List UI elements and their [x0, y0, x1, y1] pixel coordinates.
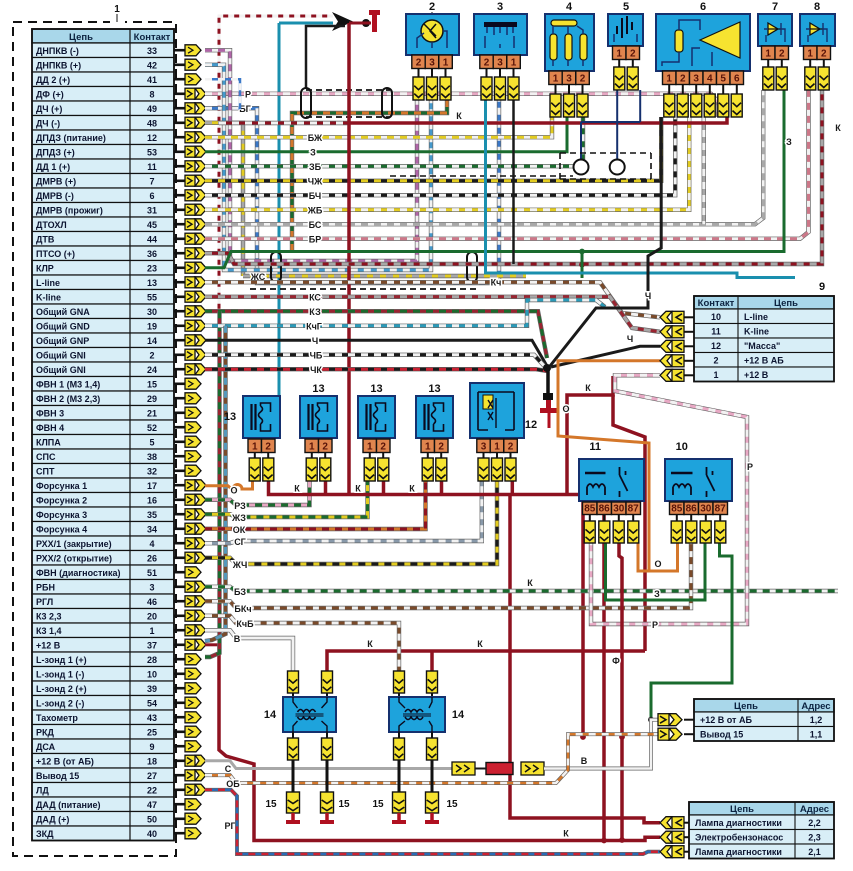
- svg-text:14: 14: [147, 336, 157, 346]
- svg-text:37: 37: [147, 641, 157, 651]
- wire К main +12V bus: [349, 117, 727, 123]
- injector 13 #2 coil symbol: [309, 403, 328, 431]
- wire crank sensor +: [205, 65, 431, 270]
- sensor 5 pins 1,2: [613, 46, 640, 60]
- svg-text:З: З: [310, 147, 316, 157]
- ignition coil 14 #2 transformer symbol: [399, 697, 432, 732]
- svg-text:33: 33: [147, 46, 157, 56]
- svg-text:3: 3: [149, 583, 154, 593]
- svg-text:26: 26: [147, 554, 157, 564]
- sensor 3 pins 2,3,1: [480, 55, 521, 69]
- wire sensor 2 pin1 route: [292, 100, 447, 252]
- ECU block 1 dashed frame: [13, 22, 176, 856]
- high-voltage wire to plug 3: [398, 760, 401, 792]
- screen 1 dashed shield box: [306, 90, 390, 117]
- svg-text:ДНПКВ (+): ДНПКВ (+): [36, 61, 81, 71]
- svg-text:5: 5: [720, 73, 726, 84]
- svg-text:2: 2: [713, 356, 718, 366]
- svg-text:49: 49: [147, 104, 157, 114]
- svg-text:ДД 2 (+): ДД 2 (+): [36, 75, 70, 85]
- spark plug connector 15 #3: [393, 792, 406, 813]
- svg-text:19: 19: [147, 322, 157, 332]
- svg-text:23: 23: [147, 264, 157, 274]
- svg-text:ЧК: ЧК: [310, 365, 322, 375]
- sensor 6 terminals: [668, 85, 670, 95]
- wire К down branch 2: [602, 495, 606, 841]
- svg-text:3: 3: [566, 73, 572, 84]
- wire БГ to sensor 3: [205, 90, 499, 283]
- svg-text:2,1: 2,1: [808, 847, 821, 857]
- svg-text:Адрес: Адрес: [800, 804, 829, 815]
- relay 10 pins 85,86,30,87: [670, 502, 728, 515]
- svg-text:К: К: [527, 578, 533, 588]
- wire ЖС horizontal: [243, 274, 526, 278]
- svg-text:БЖ: БЖ: [308, 133, 323, 143]
- svg-text:Общий GNI: Общий GNI: [36, 365, 86, 375]
- svg-text:Форсунка 3: Форсунка 3: [36, 510, 87, 520]
- wire ЧБ ground GNI: [205, 355, 547, 369]
- svg-text:18: 18: [147, 757, 157, 767]
- svg-text:Кч: Кч: [491, 277, 502, 287]
- svg-text:+12 В: +12 В: [744, 370, 769, 380]
- svg-text:К: К: [835, 123, 841, 133]
- wire З unit 7 pin2 long run: [205, 90, 784, 268]
- svg-text:ДМРВ (-): ДМРВ (-): [36, 191, 74, 201]
- svg-text:В: В: [234, 634, 241, 644]
- ignition coil 14 #1 terminals bottom: [292, 732, 294, 738]
- ECU pin table (connector 1): [32, 29, 174, 841]
- svg-text:87: 87: [715, 503, 727, 514]
- svg-text:9: 9: [149, 742, 154, 752]
- svg-text:КЗ: КЗ: [309, 307, 321, 317]
- svg-text:10: 10: [676, 441, 688, 453]
- shield capsule: [301, 88, 311, 118]
- ignition coil 14 #1 transformer symbol: [293, 697, 327, 732]
- wire crank sensor -: [205, 50, 417, 261]
- svg-text:21: 21: [147, 409, 157, 419]
- shield capsule: [467, 252, 477, 282]
- svg-text:Лампа диагностики: Лампа диагностики: [695, 818, 782, 828]
- diagnostic connector table 9: [694, 296, 834, 382]
- wire К coil 2 stub: [430, 651, 434, 671]
- svg-text:15: 15: [147, 380, 157, 390]
- svg-text:15: 15: [338, 799, 350, 810]
- injector 13 #3 coil symbol: [367, 403, 386, 431]
- svg-text:БКч: БКч: [234, 604, 251, 614]
- svg-text:11: 11: [711, 327, 721, 337]
- svg-text:Общий GNA: Общий GNA: [36, 307, 90, 317]
- svg-text:В: В: [581, 756, 588, 766]
- svg-text:10: 10: [711, 312, 721, 322]
- wire ЖЧ to module 12 pin1: [205, 481, 497, 564]
- wire К vertical center: [347, 123, 351, 495]
- svg-text:3: 3: [693, 73, 699, 84]
- svg-text:K-line: K-line: [744, 327, 769, 337]
- wire К injector stub: [440, 481, 444, 495]
- svg-text:ФВН 1 (М3 1,4): ФВН 1 (М3 1,4): [36, 380, 100, 390]
- svg-text:3: 3: [497, 1, 503, 13]
- svg-text:"Масса": "Масса": [744, 341, 780, 351]
- svg-text:Ф: Ф: [612, 656, 620, 666]
- svg-text:1: 1: [713, 370, 718, 380]
- wire КчБ to coil 2: [205, 616, 399, 671]
- screen 2 dashed shield box: [250, 252, 478, 289]
- svg-text:L-line: L-line: [744, 312, 768, 322]
- sensor 6 (mass air flow) box: [656, 14, 750, 71]
- sensor 5 (knock) box: [608, 14, 643, 46]
- svg-text:Ч: Ч: [312, 336, 318, 346]
- svg-text:ДПДЗ (питание): ДПДЗ (питание): [36, 133, 106, 143]
- svg-text:48: 48: [147, 119, 157, 129]
- svg-text:2,2: 2,2: [808, 818, 821, 828]
- svg-text:50: 50: [147, 815, 157, 825]
- svg-text:2,3: 2,3: [808, 833, 821, 843]
- svg-text:ФВН 3: ФВН 3: [36, 409, 64, 419]
- svg-text:ЗБ: ЗБ: [309, 162, 322, 172]
- wire З to sensor 4 pin3: [205, 117, 567, 152]
- svg-text:Форсунка 4: Форсунка 4: [36, 525, 87, 535]
- ground junction: [543, 364, 551, 372]
- svg-text:ДМРВ (прожиг): ДМРВ (прожиг): [36, 206, 103, 216]
- svg-text:К: К: [409, 484, 415, 494]
- svg-text:К: К: [367, 639, 373, 649]
- ignition coil 14 #2 terminals top: [394, 671, 405, 693]
- svg-text:6: 6: [734, 73, 740, 84]
- svg-text:35: 35: [147, 510, 157, 520]
- injector 13 #4 terminals: [427, 453, 429, 459]
- sensor 6 pins 1-6: [663, 71, 744, 85]
- power address table: [694, 699, 834, 741]
- unit 7 diode symbol: [764, 23, 785, 42]
- svg-text:85: 85: [584, 503, 596, 514]
- svg-text:ЧЖ: ЧЖ: [308, 176, 323, 186]
- svg-text:1: 1: [511, 57, 517, 68]
- svg-text:О: О: [230, 486, 237, 496]
- ignition module 12 box: [470, 383, 524, 438]
- svg-text:14: 14: [452, 709, 465, 721]
- svg-text:44: 44: [147, 235, 157, 245]
- wire Ч to Масса pin: [551, 346, 660, 367]
- wire fuse link: [475, 768, 486, 770]
- svg-text:О: О: [654, 559, 661, 569]
- svg-text:13: 13: [147, 278, 157, 288]
- svg-text:13: 13: [312, 383, 324, 395]
- svg-text:С: С: [225, 764, 232, 774]
- unit 8 pins 1,2: [804, 46, 831, 60]
- spark plug connector 15 #4: [426, 792, 439, 813]
- svg-text:31: 31: [147, 206, 157, 216]
- svg-text:46: 46: [147, 597, 157, 607]
- ignition module 12 terminals: [483, 453, 485, 459]
- svg-text:О: О: [562, 404, 569, 414]
- injector 13 #1 terminals: [254, 453, 256, 459]
- svg-text:15: 15: [446, 799, 458, 810]
- svg-text:L-зонд 2 (+): L-зонд 2 (+): [36, 684, 87, 694]
- svg-text:ДПДЗ (+): ДПДЗ (+): [36, 148, 75, 158]
- svg-text:30: 30: [613, 503, 625, 514]
- svg-text:41: 41: [147, 75, 157, 85]
- svg-text:ЛД: ЛД: [36, 786, 49, 796]
- svg-text:28: 28: [147, 655, 157, 665]
- svg-text:ОК: ОК: [233, 525, 246, 535]
- svg-text:2: 2: [429, 1, 435, 13]
- svg-text:ДЧ (+): ДЧ (+): [36, 104, 62, 114]
- svg-text:8: 8: [149, 90, 154, 100]
- svg-text:3: 3: [497, 57, 503, 68]
- svg-text:ФВН 2 (М3 2,3): ФВН 2 (М3 2,3): [36, 394, 100, 404]
- svg-text:Контакт: Контакт: [134, 32, 171, 43]
- ignition module 12 symbol: [478, 392, 514, 430]
- wire ЧК ground GNI: [205, 369, 547, 371]
- svg-text:Ч: Ч: [645, 291, 651, 301]
- svg-text:12: 12: [525, 419, 537, 431]
- svg-text:ФВН 4: ФВН 4: [36, 423, 64, 433]
- wire К ECU supply down branch: [219, 645, 622, 841]
- svg-text:РГ: РГ: [224, 821, 235, 831]
- svg-text:К3 1,4: К3 1,4: [36, 626, 62, 636]
- svg-text:ДТВ: ДТВ: [36, 235, 55, 245]
- svg-text:Лампа диагностики: Лампа диагностики: [695, 847, 782, 857]
- sensor 3 terminals: [486, 68, 488, 77]
- injector 13 #3 terminals: [369, 453, 371, 459]
- wire БР to unit 8 pin1: [205, 90, 809, 239]
- svg-text:1,2: 1,2: [810, 715, 823, 725]
- injector 13 #2 pins 1,2: [305, 439, 332, 453]
- svg-text:Тахометр: Тахометр: [36, 713, 78, 723]
- svg-text:3: 3: [481, 441, 487, 452]
- svg-text:13: 13: [370, 383, 382, 395]
- svg-text:38: 38: [147, 452, 157, 462]
- wire Р +12V to relay 11 pin85: [591, 375, 747, 624]
- battery terminal symbol: [369, 10, 380, 32]
- injector 13 #4 box: [416, 396, 453, 438]
- svg-text:15: 15: [372, 799, 384, 810]
- svg-text:К: К: [294, 484, 300, 494]
- svg-text:17: 17: [147, 481, 157, 491]
- unit 8 diode symbol: [806, 23, 827, 42]
- svg-text:З: З: [654, 589, 660, 599]
- wire СГ to module 12 pin3: [205, 481, 482, 543]
- svg-text:5: 5: [149, 438, 154, 448]
- svg-text:86: 86: [599, 503, 611, 514]
- svg-text:16: 16: [147, 496, 157, 506]
- wire К riser: [567, 376, 613, 495]
- svg-text:2: 2: [149, 351, 154, 361]
- svg-text:6: 6: [149, 191, 154, 201]
- svg-text:13: 13: [224, 411, 236, 423]
- svg-text:Вывод 15: Вывод 15: [700, 730, 743, 740]
- svg-text:43: 43: [147, 713, 157, 723]
- unit 8 terminals: [809, 60, 811, 68]
- wire К coil bus: [327, 651, 645, 671]
- junction arrow to battery: [332, 12, 353, 31]
- ECU connector pins: [174, 45, 206, 839]
- high-voltage wire to plug 4: [431, 760, 434, 792]
- relay 11 symbol: [585, 467, 628, 497]
- ignition coil 14 #1 box: [283, 697, 336, 732]
- spark plug connector 15 #1: [287, 792, 300, 813]
- relay 10 terminals: [676, 515, 678, 522]
- svg-text:СПТ: СПТ: [36, 467, 55, 477]
- svg-text:Вывод 15: Вывод 15: [36, 771, 79, 781]
- svg-text:ЖБ: ЖБ: [307, 205, 323, 215]
- svg-text:30: 30: [147, 307, 157, 317]
- svg-text:ЧБ: ЧБ: [310, 350, 323, 360]
- wire Ч ground GNP: [205, 340, 547, 366]
- svg-text:9: 9: [819, 281, 825, 293]
- sensor 2 terminals: [418, 68, 420, 77]
- wire Ф fuel pump feed: [619, 543, 622, 840]
- svg-text:55: 55: [147, 293, 157, 303]
- wire Ч sensor 6 ground branch: [550, 117, 661, 366]
- svg-text:Общий GNP: Общий GNP: [36, 336, 89, 346]
- sensor 2 pins 2,3,1: [412, 55, 453, 69]
- shield capsule: [382, 88, 392, 118]
- svg-text:2: 2: [680, 73, 686, 84]
- svg-text:86: 86: [686, 503, 698, 514]
- injector 13 #2 box: [300, 396, 337, 438]
- wire К injector stub: [324, 481, 328, 495]
- svg-text:ФВН (диагностика): ФВН (диагностика): [36, 568, 120, 578]
- svg-text:ДАД (питание): ДАД (питание): [36, 800, 101, 810]
- wire К unit 8 pin2 long run: [205, 90, 822, 264]
- svg-text:Форсунка 2: Форсунка 2: [36, 496, 87, 506]
- sensor 3 symbol: [484, 22, 517, 48]
- svg-text:22: 22: [147, 786, 157, 796]
- inline connector pair: [452, 762, 475, 775]
- svg-text:L-зонд 1 (-): L-зонд 1 (-): [36, 670, 84, 680]
- sensor 4 terminals: [555, 85, 557, 95]
- svg-text:54: 54: [147, 699, 157, 709]
- svg-text:2: 2: [508, 441, 514, 452]
- spark plug 15 #2 tip: [320, 813, 334, 822]
- svg-text:К: К: [477, 639, 483, 649]
- ignition coil 14 #1 terminals top: [288, 671, 299, 693]
- svg-text:2: 2: [630, 48, 636, 59]
- svg-text:20: 20: [147, 612, 157, 622]
- wire РЗ to injector 2: [205, 481, 310, 505]
- knock sensor shield circles: [560, 90, 651, 179]
- svg-text:2: 2: [580, 73, 586, 84]
- svg-text:Р: Р: [747, 462, 753, 472]
- svg-text:7: 7: [149, 177, 154, 187]
- svg-text:1: 1: [616, 48, 622, 59]
- svg-text:З: З: [786, 137, 792, 147]
- svg-text:1: 1: [252, 441, 258, 452]
- svg-text:87: 87: [628, 503, 640, 514]
- power table pins: [658, 714, 694, 741]
- wire Кч L-line to connector 9: [205, 282, 660, 317]
- injector 13 #4 pins 1,2: [421, 439, 448, 453]
- svg-text:42: 42: [147, 61, 157, 71]
- sensor 2 (crankshaft position) box: [406, 14, 459, 55]
- sensor 4 pins 1,3,2: [549, 71, 590, 85]
- wire БЧ to sensor 6 pin2: [205, 117, 675, 195]
- wire З relay 11 to relay 10: [606, 543, 706, 600]
- sensor 5 terminals: [618, 60, 620, 68]
- wire stub +12V: [205, 643, 219, 646]
- svg-text:1: 1: [425, 441, 431, 452]
- wire ЛД to diagnostic lamp 2,1: [205, 790, 660, 854]
- svg-text:ДД 1 (+): ДД 1 (+): [36, 162, 70, 172]
- svg-text:РХХ/1 (закрытие): РХХ/1 (закрытие): [36, 539, 112, 549]
- svg-text:3: 3: [429, 57, 435, 68]
- svg-text:51: 51: [147, 568, 157, 578]
- wire ЖС vertical: [205, 123, 243, 276]
- fuse: [486, 763, 513, 775]
- svg-text:К: К: [585, 383, 591, 393]
- injector 13 #1 pins 1,2: [248, 439, 275, 453]
- svg-text:39: 39: [147, 684, 157, 694]
- unit 8 (diode) box: [800, 14, 835, 46]
- svg-text:Цепь: Цепь: [774, 298, 798, 309]
- wire teal vertical to injector 1: [278, 23, 281, 396]
- svg-text:ДНПКВ (-): ДНПКВ (-): [36, 46, 79, 56]
- svg-text:БС: БС: [309, 220, 322, 230]
- dashed link from screens: [390, 175, 573, 177]
- wire crank feed teal: [279, 22, 333, 25]
- svg-text:30: 30: [700, 503, 712, 514]
- wire К module 12 stub: [511, 481, 515, 495]
- svg-text:4: 4: [707, 73, 713, 84]
- inline connector pair 2: [521, 762, 544, 775]
- unit 7 terminals: [767, 60, 769, 68]
- sensor 6 symbol (amplifier + element): [662, 20, 740, 66]
- injector 13 #4 coil symbol: [425, 403, 444, 431]
- svg-text:+12 В: +12 В: [36, 641, 61, 651]
- wire С to fuse: [205, 761, 452, 769]
- svg-text:К: К: [355, 484, 361, 494]
- svg-text:БЗ: БЗ: [234, 587, 246, 597]
- wire ОБ Вывод 15: [205, 734, 660, 783]
- svg-text:34: 34: [147, 525, 157, 535]
- svg-text:СГ: СГ: [234, 537, 246, 547]
- svg-text:6: 6: [700, 1, 706, 13]
- sensor 5 symbol: [614, 16, 637, 42]
- wire К to coils riser: [613, 395, 645, 651]
- wire БС to unit 7 pin1: [205, 90, 763, 224]
- svg-text:2: 2: [779, 48, 785, 59]
- svg-text:2: 2: [438, 441, 444, 452]
- wire К to diagnostic lamp: [510, 495, 660, 823]
- svg-text:РКД: РКД: [36, 728, 54, 738]
- connector 9 pins: [660, 311, 694, 381]
- wire О relay 11 to relay 10: [638, 543, 678, 571]
- svg-text:8: 8: [814, 1, 820, 13]
- wire КчГ branch down: [205, 326, 226, 641]
- svg-text:25: 25: [147, 728, 157, 738]
- svg-text:Цепь: Цепь: [730, 804, 754, 815]
- injector 13 #1 coil symbol: [252, 403, 271, 431]
- svg-text:ОБ: ОБ: [226, 779, 240, 789]
- svg-text:52: 52: [147, 423, 157, 433]
- svg-text:ДЧ (-): ДЧ (-): [36, 119, 60, 129]
- svg-text:11: 11: [147, 162, 157, 172]
- svg-text:К3 2,3: К3 2,3: [36, 612, 62, 622]
- svg-text:ПТСО (+): ПТСО (+): [36, 249, 75, 259]
- svg-text:12: 12: [711, 341, 721, 351]
- svg-text:1: 1: [149, 626, 154, 636]
- wire К riser to battery: [347, 23, 351, 123]
- relay 10 symbol: [671, 467, 715, 497]
- svg-text:4: 4: [566, 1, 573, 13]
- svg-text:36: 36: [147, 249, 157, 259]
- svg-text:1: 1: [443, 57, 449, 68]
- wire К to battery terminal: [349, 22, 371, 25]
- svg-text:ДМРВ (+): ДМРВ (+): [36, 177, 76, 187]
- svg-text:1: 1: [114, 4, 120, 15]
- svg-text:СПС: СПС: [36, 452, 56, 462]
